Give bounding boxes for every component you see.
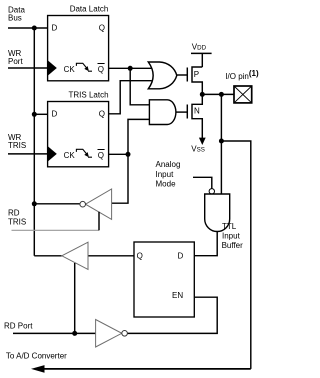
svg-text:CK: CK	[64, 65, 76, 74]
svg-text:RD: RD	[8, 209, 20, 218]
svg-text:D: D	[178, 252, 184, 261]
svg-text:Q: Q	[98, 65, 104, 74]
wire corner from bus to RD port buffer output	[34, 255, 62, 257]
svg-text:VDD: VDD	[192, 43, 207, 52]
power VDD rail bar	[191, 52, 212, 54]
svg-text:Mode: Mode	[156, 180, 177, 189]
wire A/D bus arrow line	[44, 368, 251, 370]
wire WR TRIS into TRIS Latch CK	[8, 153, 48, 155]
svg-text:Port: Port	[8, 57, 23, 66]
arrowhead to A/D converter	[31, 365, 45, 373]
wire branch down to RD TRIS buffer input	[112, 154, 128, 203]
svg-text:To A/D Converter: To A/D Converter	[6, 351, 67, 360]
wire enable riser of buffer B2	[74, 263, 76, 333]
power Vss arrow	[199, 138, 206, 145]
svg-text:(1): (1)	[249, 69, 259, 78]
svg-text:Input: Input	[222, 232, 241, 241]
clock wedge of data latch	[48, 60, 57, 75]
svg-text:N: N	[194, 106, 200, 115]
svg-text:Data Latch: Data Latch	[70, 5, 109, 14]
svg-text:D: D	[52, 110, 58, 119]
svg-text:RD Port: RD Port	[4, 322, 33, 331]
wire OR output to P gate	[177, 74, 188, 76]
junction dot at (128,154.3)	[126, 152, 131, 157]
wire data latch Qbar to OR gate top input	[109, 67, 152, 69]
latch U1 Data Latch box	[48, 16, 109, 81]
clock edge symbol of TRIS latch	[76, 149, 92, 157]
wire TTL buffer output to latch D	[194, 232, 217, 256]
ttl input buffer gate G3	[205, 194, 230, 232]
inverter B3 RD Port strobe (points right)	[96, 320, 128, 348]
svg-text:TRIS Latch: TRIS Latch	[69, 91, 109, 100]
svg-text:TRIS: TRIS	[8, 218, 26, 227]
wire latch Q to RD port buffer input	[88, 255, 134, 257]
wire RD Port line	[13, 332, 96, 334]
svg-text:TRIS: TRIS	[8, 141, 26, 150]
junction dot at (74.7,333.4)	[72, 331, 77, 336]
svg-text:Analog: Analog	[156, 160, 181, 169]
transistor Q2 N-channel	[187, 94, 202, 138]
and-gate G2	[149, 100, 176, 125]
tri-state buffer B1 RD TRIS (points left)	[80, 189, 112, 219]
svg-text:I/O pin: I/O pin	[225, 72, 249, 81]
wire branch to TRIS latch D	[34, 113, 47, 115]
or-gate G1	[148, 62, 177, 89]
wire branch down to AND gate top input	[130, 68, 151, 105]
junction dot at (34.3,114.3)	[32, 112, 37, 117]
svg-text:Buffer: Buffer	[222, 241, 244, 250]
wire branch up to AND gate bottom input	[128, 119, 152, 154]
latch U2 TRIS Latch box	[48, 102, 109, 167]
clock wedge of TRIS latch	[48, 146, 57, 161]
wire TRIS latch Q to OR gate bottom input	[109, 81, 152, 114]
wire enable riser into buffer B1	[98, 212, 100, 231]
wire pin branch down to TTL buffer input	[220, 94, 222, 194]
svg-text:Q: Q	[98, 151, 104, 160]
svg-text:Q: Q	[99, 110, 105, 119]
junction dot at (34.3,203.8)	[32, 201, 37, 206]
junction dot on data bus at x=34.3 y=28	[32, 26, 37, 31]
svg-text:Input: Input	[156, 170, 175, 179]
svg-text:Bus: Bus	[8, 13, 22, 22]
wire RD TRIS enable line (grey)	[12, 229, 100, 231]
tri-state buffer B2 RD Port read (points left)	[62, 242, 88, 269]
wire branch to RD TRIS buffer output bubble	[34, 203, 80, 205]
svg-text:CK: CK	[64, 151, 76, 160]
wire Data Bus horizontal into Data Latch D	[8, 27, 48, 29]
svg-text:Q: Q	[99, 24, 105, 33]
wire WR Port into Data Latch CK	[8, 67, 48, 69]
wire AND output to N gate	[176, 111, 188, 113]
junction dot at (130,68.3)	[128, 66, 133, 71]
wire to A/D right rail	[221, 141, 250, 369]
junction dot at (202.3,94.4)	[200, 92, 205, 97]
junction dot at (221.4,94.4)	[219, 92, 224, 97]
wire VDD to P source	[201, 53, 203, 67]
svg-text:D: D	[52, 24, 58, 33]
I/O pin pad symbol box with X	[234, 86, 252, 103]
bubble on TTL buffer input	[209, 189, 214, 194]
wire TRIS latch Qbar output	[109, 153, 128, 155]
clock edge symbol of data latch	[76, 63, 92, 71]
transistor Q1 P-channel	[187, 67, 202, 94]
svg-text:EN: EN	[172, 291, 183, 300]
wire pin node horizontal	[202, 93, 234, 95]
svg-text:P: P	[194, 70, 199, 79]
svg-text:TTL: TTL	[222, 222, 237, 231]
svg-text:Q: Q	[137, 252, 143, 261]
junction dot at (221.4,141)	[219, 139, 224, 144]
wire analog input mode to TTL buffer bubble	[193, 177, 212, 188]
svg-text:VSS: VSS	[191, 145, 205, 154]
wire EN to RD port inverter output	[127, 297, 217, 333]
latch U3 input buffer latch box	[134, 242, 194, 317]
wire data bus vertical x=34.3 from y=28 to y=255.8	[33, 28, 35, 256]
